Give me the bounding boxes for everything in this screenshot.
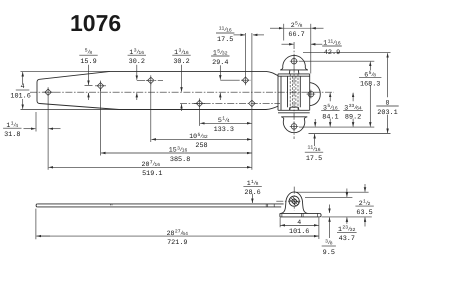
- svg-text:8: 8: [300, 23, 303, 29]
- svg-text:4: 4: [297, 219, 301, 226]
- svg-text:16: 16: [154, 162, 160, 168]
- svg-text:28: 28: [167, 230, 175, 237]
- svg-text:20: 20: [142, 161, 150, 168]
- svg-text:15: 15: [169, 147, 177, 154]
- svg-text:84.1: 84.1: [322, 113, 338, 121]
- svg-text:15.9: 15.9: [80, 58, 96, 66]
- svg-text:31.8: 31.8: [4, 131, 20, 139]
- svg-text:1: 1: [323, 40, 327, 47]
- svg-text:101.6: 101.6: [289, 228, 309, 236]
- svg-text:42.9: 42.9: [324, 49, 340, 57]
- svg-text:28.6: 28.6: [244, 189, 260, 197]
- svg-text:1: 1: [174, 49, 178, 56]
- svg-text:30.2: 30.2: [129, 58, 145, 66]
- svg-text:721.9: 721.9: [167, 239, 187, 247]
- svg-text:6: 6: [364, 71, 368, 78]
- svg-text:385.8: 385.8: [170, 156, 190, 164]
- svg-text:101.6: 101.6: [10, 92, 30, 100]
- svg-text:29.4: 29.4: [212, 59, 228, 67]
- svg-text:1076: 1076: [70, 10, 121, 36]
- svg-text:3: 3: [344, 104, 348, 111]
- svg-text:10: 10: [189, 133, 197, 140]
- svg-text:89.2: 89.2: [345, 113, 361, 121]
- svg-text:63.5: 63.5: [356, 209, 372, 217]
- svg-text:1: 1: [129, 49, 133, 56]
- svg-text:1: 1: [338, 226, 342, 233]
- svg-text:3: 3: [323, 104, 327, 111]
- svg-text:32: 32: [202, 134, 208, 140]
- svg-text:258: 258: [195, 142, 207, 150]
- svg-text:17.5: 17.5: [217, 36, 233, 44]
- svg-text:9.5: 9.5: [323, 249, 335, 257]
- svg-text:1: 1: [213, 50, 217, 57]
- svg-text:168.3: 168.3: [360, 80, 380, 88]
- svg-text:43.7: 43.7: [339, 235, 355, 243]
- svg-text:8: 8: [386, 100, 390, 107]
- svg-text:66.7: 66.7: [288, 31, 304, 39]
- svg-text:64: 64: [182, 231, 188, 237]
- svg-text:16: 16: [182, 148, 188, 154]
- svg-text:17.5: 17.5: [306, 155, 322, 163]
- svg-text:519.1: 519.1: [142, 170, 162, 178]
- svg-text:30.2: 30.2: [173, 58, 189, 66]
- svg-text:133.3: 133.3: [214, 126, 234, 134]
- svg-text:4: 4: [227, 118, 230, 124]
- svg-text:203.1: 203.1: [377, 109, 397, 117]
